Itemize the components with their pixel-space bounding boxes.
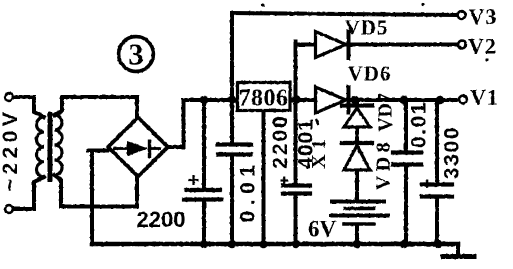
svg-text:VD8: VD8 — [373, 138, 395, 190]
svg-text:VD7: VD7 — [375, 93, 397, 132]
svg-text:6V: 6V — [308, 217, 337, 242]
svg-text:0.01: 0.01 — [237, 160, 260, 223]
svg-text:0.01: 0.01 — [408, 101, 431, 148]
svg-text:V3: V3 — [469, 4, 498, 29]
svg-text:V1: V1 — [470, 85, 499, 110]
svg-text:2200: 2200 — [269, 114, 292, 169]
svg-text:VD6: VD6 — [348, 62, 392, 86]
svg-text:2200: 2200 — [137, 207, 186, 232]
svg-text:V2: V2 — [468, 34, 497, 59]
svg-text:~220V: ~220V — [0, 108, 22, 191]
svg-text:7806: 7806 — [239, 86, 289, 112]
svg-text:3300: 3300 — [441, 126, 464, 180]
svg-text:VD5: VD5 — [345, 16, 389, 40]
svg-text:X1: X1 — [308, 134, 330, 168]
svg-text:3: 3 — [128, 37, 144, 72]
